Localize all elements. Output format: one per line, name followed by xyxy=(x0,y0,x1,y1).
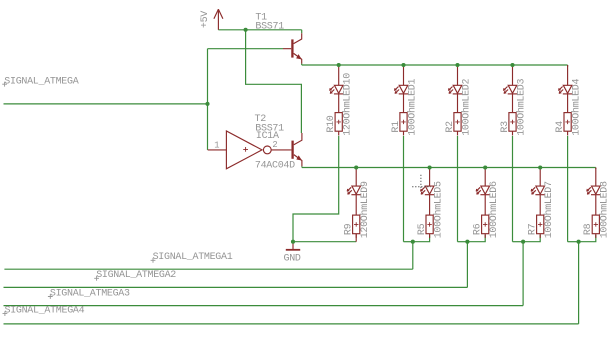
wire ground rail to R9 xyxy=(293,241,356,243)
LED LED10 pin xyxy=(338,65,340,85)
junction SIGNAL_ATMEGA xyxy=(205,102,209,106)
wire column x=567.6 xyxy=(567,136,569,242)
svg-text:+5V: +5V xyxy=(200,11,211,28)
wire vertical SIGNAL_ATMEGA xyxy=(207,49,209,150)
approved DRC marker (dotted cross) xyxy=(412,175,431,189)
ground xyxy=(286,242,300,250)
svg-text:R7: R7 xyxy=(528,223,539,235)
wire drop to signal y=269.2 xyxy=(412,242,414,270)
net label origin SIGNAL_ATMEGA4 xyxy=(3,311,8,316)
junction +5V rail xyxy=(244,28,248,32)
junction LED1 xyxy=(401,63,405,67)
wire drop to signal y=305.6 xyxy=(522,242,524,306)
wire T1 emitter to rail xyxy=(301,64,303,65)
LED LED10 lower pin xyxy=(338,94,340,113)
wire SIGNAL_ATMEGA1 xyxy=(4,268,412,270)
LED LED4 lower pin xyxy=(567,94,569,113)
LED LED8 xyxy=(587,186,601,195)
junction col1 xyxy=(411,240,415,244)
wire R9 tail xyxy=(355,234,357,242)
resistor R7 xyxy=(537,215,544,234)
svg-text:100OhmLED1: 100OhmLED1 xyxy=(406,78,418,135)
LED LED3 xyxy=(503,85,517,94)
LED LED2 xyxy=(448,85,462,94)
wire to T1 base xyxy=(208,48,284,50)
LED LED9 lower pin xyxy=(355,195,357,215)
LED LED3 pin xyxy=(512,65,514,85)
svg-text:GND: GND xyxy=(284,253,301,264)
resistor R3 xyxy=(509,113,516,132)
svg-text:R8: R8 xyxy=(583,223,594,235)
wire R column 595.8 to joint xyxy=(579,235,596,242)
svg-text:100OhmLED6: 100OhmLED6 xyxy=(488,181,500,238)
svg-text:SIGNAL_ATMEGA2: SIGNAL_ATMEGA2 xyxy=(96,270,176,281)
LED LED9 xyxy=(347,186,361,195)
svg-text:100OhmLED8: 100OhmLED8 xyxy=(599,181,611,238)
resistor R1 xyxy=(400,113,407,132)
net label origin SIGNAL_ATMEGA2 xyxy=(94,276,99,281)
transistor T1 xyxy=(283,33,302,63)
wire rail corner down xyxy=(567,65,569,67)
wire to T1 collector xyxy=(301,30,303,33)
svg-text:SIGNAL_ATMEGA3: SIGNAL_ATMEGA3 xyxy=(50,288,130,299)
junction col2 xyxy=(465,240,469,244)
LED LED5 lower pin xyxy=(429,195,431,215)
LED LED10 xyxy=(330,85,344,94)
wire R column 429.6 to joint xyxy=(413,235,430,242)
LED LED6 xyxy=(476,186,490,195)
resistor R10 xyxy=(335,113,342,132)
wire column x=403.5 xyxy=(403,136,405,242)
IC1A origin cross xyxy=(243,147,248,152)
wire SIGNAL_ATMEGA3 xyxy=(4,305,524,307)
wire joint 523.1 xyxy=(513,241,524,243)
LED LED1 lower pin xyxy=(403,94,405,113)
svg-text:74AC04D: 74AC04D xyxy=(255,161,295,172)
svg-text:R1: R1 xyxy=(391,121,402,133)
junction col4 xyxy=(577,240,581,244)
LED LED9 pin xyxy=(355,168,357,187)
junction LED2 xyxy=(455,63,459,67)
junction col3 xyxy=(521,240,525,244)
wire SIGNAL_ATMEGA4 xyxy=(4,323,579,325)
svg-text:R2: R2 xyxy=(445,121,456,133)
svg-text:100OhmLED4: 100OhmLED4 xyxy=(570,78,582,135)
wire +5V to IC1A/T2 collector xyxy=(246,30,302,133)
resistor R9 xyxy=(353,215,360,234)
LED LED7 xyxy=(531,186,545,195)
wire +5V rail xyxy=(218,29,301,31)
svg-text:BSS71: BSS71 xyxy=(255,21,284,32)
svg-text:R10: R10 xyxy=(326,115,337,132)
LED LED7 pin xyxy=(539,168,541,187)
svg-text:SIGNAL_ATMEGA1: SIGNAL_ATMEGA1 xyxy=(153,252,233,263)
svg-text:100OhmLED5: 100OhmLED5 xyxy=(432,181,444,238)
LED LED6 pin xyxy=(484,168,486,187)
net label origin SIGNAL_ATMEGA3 xyxy=(48,294,53,299)
junction LED7 xyxy=(538,165,542,169)
resistor R2 xyxy=(454,113,461,132)
LED LED4 xyxy=(558,85,572,94)
wire middle LED rail xyxy=(302,167,596,169)
LED LED4 pin xyxy=(567,65,569,85)
resistor R5 xyxy=(426,215,433,234)
resistor R8 xyxy=(592,215,599,234)
net label origin SIGNAL_ATMEGA xyxy=(2,82,7,87)
wire top LED rail xyxy=(302,64,568,66)
net label origin SIGNAL_ATMEGA1 xyxy=(151,258,156,263)
resistor R4 xyxy=(564,113,571,132)
svg-text:R3: R3 xyxy=(500,121,511,133)
LED LED2 pin xyxy=(457,65,459,85)
LED LED6 lower pin xyxy=(484,195,486,215)
resistor R6 xyxy=(482,215,489,234)
junction LED10 xyxy=(337,63,341,67)
svg-text:SIGNAL_ATMEGA: SIGNAL_ATMEGA xyxy=(4,77,78,88)
LED LED8 pin xyxy=(595,168,597,187)
wire column x=512.5 xyxy=(512,136,514,242)
svg-text:100OhmLED2: 100OhmLED2 xyxy=(460,78,472,135)
svg-text:100OhmLED7: 100OhmLED7 xyxy=(543,181,555,238)
LED LED5 xyxy=(420,186,434,195)
wire drop to signal y=287.4 xyxy=(466,242,468,288)
junction GND node xyxy=(291,240,295,244)
svg-text:SIGNAL_ATMEGA4: SIGNAL_ATMEGA4 xyxy=(5,305,85,316)
junction LED6 xyxy=(483,165,487,169)
svg-text:120OhmLED10: 120OhmLED10 xyxy=(342,73,354,136)
op-amp/inverter U IC1A xyxy=(208,131,291,169)
wire SIGNAL_ATMEGA xyxy=(4,103,208,105)
svg-text:100OhmLED3: 100OhmLED3 xyxy=(515,78,527,135)
LED LED1 pin xyxy=(403,65,405,85)
wire R column 540.2 to joint xyxy=(523,235,540,242)
junction LED3 xyxy=(510,63,514,67)
svg-text:1: 1 xyxy=(214,141,219,151)
wire column x=457.5 xyxy=(457,136,459,242)
LED LED8 lower pin xyxy=(595,195,597,215)
wire SIGNAL_ATMEGA2 xyxy=(4,286,468,288)
transistor T2 xyxy=(291,133,302,166)
LED LED3 lower pin xyxy=(512,94,514,113)
wire joint 578.6 xyxy=(568,241,579,243)
svg-text:R9: R9 xyxy=(344,223,355,235)
wire drop to signal y=323.9 xyxy=(578,242,580,324)
wire joint 412.8 xyxy=(404,241,413,243)
svg-text:2: 2 xyxy=(272,140,277,150)
LED LED1 xyxy=(394,85,408,94)
LED LED5 pin xyxy=(429,168,431,187)
junction LED5 xyxy=(428,165,432,169)
svg-text:R5: R5 xyxy=(417,223,428,235)
wire T2 emitter to rail xyxy=(301,166,303,167)
svg-text:120OhmLED9: 120OhmLED9 xyxy=(359,181,371,238)
wire R column 485.2 to joint xyxy=(467,235,485,242)
+5V supply symbol xyxy=(214,9,223,30)
wire rail corner down xyxy=(595,168,597,170)
svg-text:R6: R6 xyxy=(473,223,484,235)
wire R10 to ground node xyxy=(293,136,339,242)
junction LED9 xyxy=(354,165,358,169)
LED LED2 lower pin xyxy=(457,94,459,113)
wire joint 467.4 xyxy=(458,241,468,243)
LED LED7 lower pin xyxy=(539,195,541,215)
svg-text:R4: R4 xyxy=(555,121,566,133)
